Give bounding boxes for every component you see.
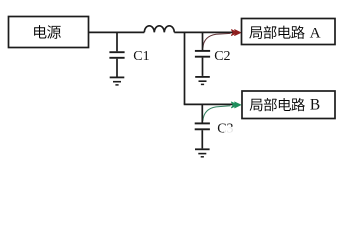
red arrowhead into local circuit A: [231, 30, 240, 36]
wire: node to capacitor C1: [116, 32, 118, 51]
wire: inductor L1 to local circuit A: [174, 31, 233, 33]
green arrowhead into local circuit B: [231, 102, 240, 108]
wire: power supply output to inductor L1: [89, 31, 144, 33]
wire: lower rail node to capacitor C3: [201, 104, 203, 122]
svg-text:C2: C2: [214, 49, 230, 64]
capacitor C1 plates: [109, 52, 124, 58]
local circuit A box: [242, 19, 336, 45]
green current-path curve from C3 to local circuit B: [203, 106, 231, 121]
local circuit B box: [242, 91, 335, 119]
ground symbol below C3: [195, 149, 210, 157]
inductor L1 (3 loops): [144, 26, 174, 33]
svg-text:C1: C1: [133, 49, 149, 64]
svg-text:B: B: [310, 97, 320, 114]
ground symbol below C1: [110, 77, 125, 85]
wire: lower rail to local circuit B: [184, 103, 234, 105]
capacitor C3 plates: [195, 123, 210, 129]
wire: C2 to ground: [202, 58, 204, 76]
svg-text:A: A: [310, 25, 321, 42]
wire: branch node down to local circuit B rail: [184, 32, 186, 104]
wire: node to capacitor C2: [202, 32, 204, 50]
wire: C3 to ground: [201, 130, 203, 148]
red current-path curve from C2 to local circuit A: [203, 33, 231, 47]
capacitor C2 plates: [195, 51, 210, 57]
power supply box 电源: [9, 17, 89, 48]
wire: C1 to ground: [116, 59, 118, 77]
ground symbol below C2: [195, 77, 210, 85]
